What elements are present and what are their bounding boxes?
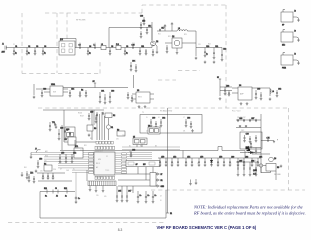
wire U2 output long — [63, 87, 128, 89]
capacitor C114 — [146, 26, 152, 34]
svg-text:C9: C9 — [126, 46, 128, 48]
svg-text:102: 102 — [185, 163, 188, 165]
wire to C22 — [221, 48, 223, 51]
wire block G — [220, 79, 232, 96]
wire stage output — [196, 47, 222, 49]
ground L3 node — [195, 57, 198, 60]
wires U1 caps below — [117, 186, 133, 193]
capacitor C168 — [255, 119, 257, 122]
capacitor CE1 — [137, 191, 142, 203]
capacitor Cr218 — [217, 157, 223, 167]
svg-text:8-3: 8-3 — [118, 228, 123, 232]
capacitor C153 — [71, 153, 77, 164]
svg-text:C17: C17 — [161, 28, 164, 30]
svg-text:2p: 2p — [124, 52, 126, 54]
capacitor C120 — [204, 46, 210, 57]
wire main RX path left — [6, 47, 59, 49]
block osc box — [240, 132, 262, 149]
svg-text:U5: U5 — [133, 136, 135, 138]
connector J1 ANT — [2, 44, 7, 54]
svg-text:C75: C75 — [267, 138, 270, 140]
dashed segment y80 — [158, 79, 176, 81]
wire drop x245 — [244, 151, 246, 159]
svg-text:U6: U6 — [148, 125, 150, 127]
wire L3 to node — [187, 31, 196, 56]
wire x87 drop — [86, 170, 88, 181]
svg-text:C82: C82 — [245, 157, 248, 159]
capacitor C152 — [65, 154, 68, 163]
capacitor C115 — [140, 31, 143, 38]
svg-text:9V: 9V — [217, 77, 219, 79]
svg-text:5p: 5p — [109, 52, 111, 54]
capacitor C111 — [139, 46, 144, 55]
svg-text:C1: C1 — [13, 44, 15, 46]
ground U3b — [144, 105, 147, 108]
filter FL2 — [116, 44, 121, 50]
svg-text:C65 C66 C67: C65 C66 C67 — [237, 117, 246, 119]
svg-text:TP1: TP1 — [52, 122, 55, 124]
svg-text:471: 471 — [183, 131, 186, 133]
ground right y141 — [273, 139, 278, 143]
capacitor C90 — [263, 164, 271, 167]
crystal X1 — [106, 118, 113, 140]
dashed boundary left vertical x22 — [21, 13, 23, 74]
wire Q2 collector — [182, 42, 196, 44]
ground U4a — [240, 102, 243, 105]
wire U2 pin feed — [36, 88, 50, 90]
capacitor C110 — [132, 45, 135, 49]
svg-text:103: 103 — [66, 170, 69, 172]
dashed boundary y73 — [22, 73, 100, 75]
capacitor Cr238 — [237, 158, 240, 167]
ferrite bead FB1 — [246, 147, 250, 150]
ground Q301 — [261, 167, 272, 173]
ground Q2 emitter — [176, 51, 179, 54]
svg-text:102: 102 — [254, 160, 257, 162]
filter FL1 shielded — [59, 39, 76, 56]
svg-text:47: 47 — [60, 169, 62, 171]
ic U5 dual — [133, 136, 147, 147]
capacitor CE4 — [75, 196, 80, 204]
svg-text:L5: L5 — [146, 117, 148, 119]
capacitor Cr172 — [171, 157, 177, 167]
ground mid a — [189, 182, 192, 185]
ground R108 — [88, 134, 91, 137]
capacitor Cr224 — [223, 158, 226, 167]
svg-text:R8: R8 — [94, 128, 96, 130]
wire y147 right block — [248, 147, 261, 149]
svg-text:C33: C33 — [111, 91, 114, 93]
svg-text:R4: R4 — [81, 90, 83, 92]
capacitor Cq4 — [255, 162, 258, 176]
jog on bus line — [36, 150, 41, 153]
svg-text:C31: C31 — [198, 44, 201, 46]
ic U3 — [136, 90, 150, 103]
capacitor C167 — [249, 118, 254, 122]
svg-text:C5: C5 — [79, 43, 81, 45]
svg-text:C60: C60 — [152, 118, 155, 120]
svg-text:R9: R9 — [117, 129, 119, 131]
connector pin P1-2 — [157, 179, 163, 182]
pins U3 — [132, 94, 154, 99]
resistor R108 — [87, 125, 96, 131]
connector J2 — [281, 10, 300, 27]
capacitor C148 — [130, 150, 136, 158]
svg-text:J3: J3 — [294, 30, 296, 32]
wire Q1 emitter — [155, 45, 157, 51]
svg-text:C48: C48 — [66, 129, 69, 131]
svg-text:3p: 3p — [126, 53, 128, 55]
svg-text:C63: C63 — [187, 118, 190, 120]
capacitor C121 — [213, 46, 219, 59]
capacitor Cr252 — [251, 158, 254, 167]
svg-text:C92: C92 — [122, 135, 125, 137]
capacitor C101 — [13, 46, 18, 55]
connector pin P1-3 — [157, 185, 165, 188]
capacitor C169 — [243, 134, 249, 143]
capacitor C117 — [159, 28, 164, 32]
svg-text:L6: L6 — [158, 117, 160, 119]
capacitor C160 — [26, 171, 29, 179]
svg-text:C52: C52 — [73, 153, 76, 155]
svg-text:L4: L4 — [272, 91, 274, 93]
wire left cluster vertical — [61, 125, 63, 150]
svg-text:202 GND: 202 GND — [274, 174, 281, 176]
capacitor C155 — [28, 173, 34, 183]
capacitor C135 — [127, 92, 130, 99]
svg-text:C10: C10 — [132, 43, 135, 45]
svg-text:B3: B3 — [155, 145, 157, 147]
svg-text:C56: C56 — [44, 161, 47, 163]
capacitor C173 — [255, 135, 258, 142]
svg-text:ANT: ANT — [2, 50, 5, 53]
svg-text:SW: SW — [53, 91, 56, 93]
wire Q2 emitter — [176, 48, 178, 51]
capacitor C127 — [99, 91, 105, 104]
svg-text:4p: 4p — [206, 54, 208, 56]
svg-text:C+: C+ — [78, 198, 80, 200]
capacitor C116 — [140, 16, 145, 26]
connector J5 body — [150, 173, 156, 187]
capacitor C179 — [54, 123, 56, 126]
svg-text:L3: L3 — [178, 28, 180, 30]
svg-text:10: 10 — [160, 200, 162, 202]
dashed boundary top-left block — [45, 12, 142, 14]
capacitor C123 — [41, 89, 47, 98]
svg-text:8p: 8p — [28, 53, 30, 55]
capacitor C157 — [42, 173, 45, 180]
capacitor Cr186 — [185, 157, 191, 167]
svg-text:C22: C22 — [223, 49, 226, 51]
svg-text:C62: C62 — [162, 118, 165, 120]
svg-text:C67: C67 — [251, 118, 254, 120]
wire gnd stub a — [190, 180, 192, 183]
pins U2 — [44, 89, 68, 92]
diode D2 — [210, 158, 213, 166]
svg-text:223: 223 — [146, 131, 149, 133]
svg-text:R23: R23 — [184, 34, 187, 36]
capacitor C137 — [224, 86, 230, 96]
wire x92 down — [91, 110, 93, 140]
svg-text:R107: R107 — [80, 116, 84, 118]
svg-text:C34: C34 — [132, 61, 135, 63]
svg-text:C45: C45 — [118, 191, 121, 193]
resistor array below U1 — [95, 176, 115, 179]
capacitor C139 — [255, 89, 261, 100]
svg-text:C16: C16 — [140, 16, 143, 18]
capacitor C126 — [85, 90, 88, 97]
svg-text:223: 223 — [197, 163, 200, 165]
wire y110 long — [43, 109, 104, 111]
svg-text:3p: 3p — [87, 52, 89, 54]
capacitor C140 — [260, 92, 263, 100]
transformer T2 dual box — [65, 127, 75, 138]
test point TP1 — [52, 122, 57, 129]
wire bypass loop — [109, 28, 152, 48]
wire drops from AF strip — [138, 167, 153, 186]
capacitor C158 — [47, 173, 50, 180]
capacitor C129 — [109, 91, 115, 104]
wire x276 down — [275, 171, 277, 180]
svg-text:C55: C55 — [40, 171, 43, 173]
wire sub rail y154 — [252, 153, 270, 155]
wire bus lines to P1 — [116, 174, 157, 186]
wire long vertical x167 — [167, 108, 169, 213]
svg-text:T1: T1 — [142, 112, 144, 114]
svg-text:D0: D0 — [129, 151, 131, 153]
block AF strip box — [126, 160, 160, 166]
capacitor C166 — [243, 119, 245, 122]
svg-text:5C: 5C — [73, 169, 75, 171]
svg-text:R21: R21 — [158, 34, 161, 36]
capacitor C125 — [79, 90, 84, 98]
svg-text:C11: C11 — [141, 46, 144, 48]
svg-text:5T: 5T — [161, 174, 163, 176]
capacitor Cr258 — [257, 157, 263, 167]
svg-text:R22: R22 — [168, 36, 171, 38]
svg-text:C+: C+ — [139, 195, 141, 197]
ic U1 — [94, 152, 115, 175]
inductor L4 — [270, 89, 274, 93]
svg-text:C74: C74 — [187, 157, 190, 159]
ic U2 — [50, 84, 63, 96]
svg-text:C70: C70 — [161, 157, 164, 159]
svg-text:J6: J6 — [55, 188, 57, 190]
capacitor C159 — [52, 173, 55, 180]
svg-text:X1: X1 — [111, 127, 113, 129]
capacitor C147 — [126, 191, 132, 203]
capacitor Cr192 — [191, 158, 194, 167]
pins U1 right — [115, 153, 121, 173]
capacitor C175 — [267, 138, 270, 142]
ground Q1 emitter — [156, 51, 159, 54]
svg-text:J8: J8 — [160, 196, 162, 198]
svg-text:C31: C31 — [101, 91, 104, 93]
ground R4 left — [35, 170, 38, 173]
svg-text:C6: C6 — [89, 46, 91, 48]
svg-text:R42: R42 — [30, 172, 33, 174]
svg-text:C23: C23 — [43, 89, 46, 91]
svg-text:C53: C53 — [39, 159, 42, 161]
wire y142 — [64, 141, 96, 143]
ground far left — [21, 172, 24, 177]
wires above U1 — [97, 112, 105, 140]
resistor array above U1 row1 — [95, 146, 115, 149]
resistor R5 — [266, 164, 279, 172]
svg-text:33p: 33p — [26, 52, 29, 54]
svg-text:2p: 2p — [89, 53, 91, 55]
wire U2 input — [33, 84, 35, 95]
svg-text:C3: C3 — [36, 46, 38, 48]
diode D3 — [248, 149, 255, 153]
svg-text:104: 104 — [242, 160, 245, 162]
capacitor C178 — [49, 122, 52, 131]
svg-text:J2: J2 — [294, 10, 296, 12]
svg-text:C42: C42 — [278, 89, 281, 91]
wire gnd stub b — [195, 179, 197, 182]
wire Q1 collector — [151, 22, 153, 40]
ground bypass G2 — [171, 22, 174, 31]
svg-text:R41: R41 — [24, 167, 27, 169]
capacitor C165b — [237, 118, 242, 122]
wire drop x183 — [182, 151, 184, 159]
wire x75 to RP1 — [74, 140, 76, 148]
capacitor C165 — [190, 121, 193, 128]
svg-text:C+: C+ — [147, 195, 149, 197]
ground P2c — [102, 189, 105, 192]
ground P2a — [89, 188, 92, 191]
resistor R3 — [65, 137, 77, 145]
wire y140 right — [261, 140, 274, 142]
svg-text:C+: C+ — [154, 195, 156, 197]
capacitor C177 — [255, 148, 257, 155]
capacitor C132 — [95, 115, 98, 123]
capacitor Cr178 — [177, 158, 180, 167]
wire rails right block — [236, 120, 261, 128]
capacitor C122 — [221, 49, 227, 62]
capacitor CE3 — [152, 191, 157, 203]
ground C20b — [204, 61, 207, 64]
wires P2 grounds — [90, 186, 103, 189]
node tick E1 — [166, 213, 172, 215]
svg-text:RP1: RP1 — [75, 146, 78, 148]
capacitor C109 — [124, 46, 129, 55]
svg-text:FL1: FL1 — [60, 39, 63, 41]
svg-text:224: 224 — [53, 169, 56, 171]
svg-text:R5: R5 — [277, 167, 279, 169]
svg-text:1p: 1p — [15, 53, 17, 55]
wire U4 inputs — [232, 88, 238, 93]
capacitor C151 — [59, 153, 65, 164]
dashed boundary jog vertical — [141, 5, 143, 13]
svg-text:C21: C21 — [215, 46, 218, 48]
transistor Q4 — [269, 157, 277, 162]
svg-text:1 2 3 4 5 6 7: 1 2 3 4 5 6 7 — [95, 150, 103, 152]
svg-text:C96: C96 — [130, 190, 133, 192]
capacitor row lower — [239, 126, 247, 128]
svg-text:FL2: FL2 — [116, 44, 119, 46]
capacitor C108 — [109, 46, 114, 55]
connector J4 — [281, 53, 300, 70]
bus right of U1 — [122, 147, 180, 159]
dashed segment y70 — [178, 70, 200, 72]
capacitor C105 — [79, 45, 81, 49]
svg-text:5p: 5p — [44, 53, 46, 55]
svg-text:C50: C50 — [61, 153, 64, 155]
svg-text:102: 102 — [217, 163, 220, 165]
capacitor C136 — [131, 95, 134, 102]
capacitor C128 — [104, 94, 107, 104]
svg-text:L2: L2 — [101, 44, 103, 46]
capacitor C171 — [249, 136, 252, 143]
ground P2b — [95, 189, 98, 192]
svg-text:C80: C80 — [231, 157, 234, 159]
connector pin P1-1 — [157, 173, 162, 176]
svg-text:C29: C29 — [90, 112, 93, 114]
power rail symbol 9V — [93, 81, 97, 88]
ground bypass G1 — [164, 24, 167, 31]
dashed divider x57 — [56, 13, 58, 73]
ground U4b — [246, 102, 249, 105]
svg-text:X2: X2 — [80, 150, 82, 152]
inductor L3 — [177, 28, 187, 31]
transistor Q1 — [151, 41, 159, 46]
ground R5 — [280, 165, 283, 168]
svg-text:J1: J1 — [2, 44, 4, 46]
ic U6 dual — [148, 125, 160, 134]
capacitor C143 — [96, 113, 98, 116]
ground TX box — [191, 129, 194, 132]
capacitor C150 — [69, 132, 71, 135]
svg-text:C72: C72 — [173, 157, 176, 159]
svg-text:R11: R11 — [44, 188, 47, 190]
block TX filter box — [140, 115, 202, 134]
svg-text:R3: R3 — [65, 139, 67, 141]
capacitor C119 — [152, 49, 155, 56]
capacitor Cq3 — [249, 161, 255, 177]
ground C21b — [213, 61, 216, 64]
capacitor C131 — [88, 112, 94, 121]
capacitor C104 — [42, 46, 47, 55]
dashed boundary mid horizontal y108 — [38, 107, 290, 109]
svg-text:102: 102 — [257, 163, 260, 165]
svg-text:C78: C78 — [219, 157, 222, 159]
capacitor C163 — [160, 118, 166, 128]
svg-text:R4: R4 — [44, 163, 46, 165]
svg-text:C24: C24 — [71, 89, 74, 91]
capacitor Cr160 — [159, 157, 165, 167]
capacitor C102 — [26, 46, 31, 55]
svg-text:Q4: Q4 — [274, 158, 276, 160]
wire rail y162 right block — [236, 161, 258, 163]
ground mid b — [195, 182, 198, 185]
wire y152 right block — [240, 152, 261, 154]
capacitor C134 — [135, 64, 138, 72]
svg-text:R24: R24 — [208, 44, 211, 46]
ground bus input — [30, 149, 37, 159]
block bottom ground loop — [40, 190, 166, 218]
connector J3 — [281, 30, 300, 47]
dashed boundary right vertical x288 — [288, 108, 290, 190]
wire amp input — [157, 30, 177, 32]
wire U4 out — [252, 88, 270, 96]
wire top rail y150 with notch — [60, 147, 245, 151]
svg-text:C40: C40 — [257, 89, 260, 91]
svg-text:PLL / VCO: PLL / VCO — [232, 111, 241, 113]
svg-text:27p: 27p — [34, 52, 37, 54]
dashed boundary bottom y222 — [8, 221, 166, 223]
capacitor C107 — [94, 45, 96, 49]
